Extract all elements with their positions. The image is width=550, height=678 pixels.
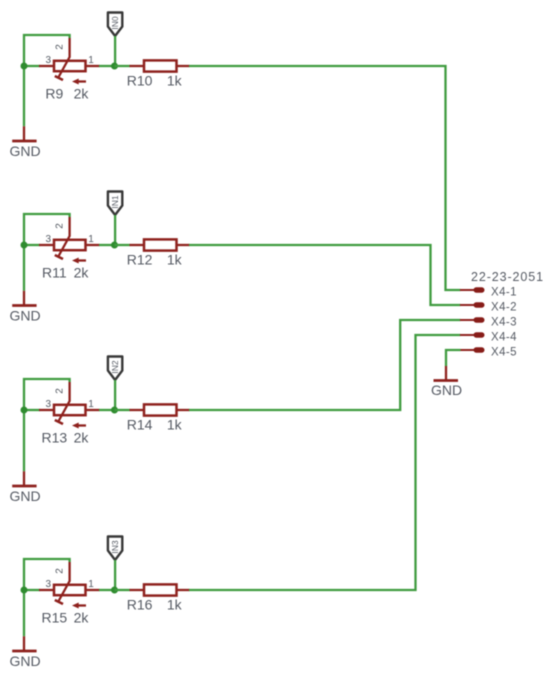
ground GND at connector <box>434 366 459 381</box>
svg-text:3: 3 <box>46 234 52 245</box>
potentiometer R13 2k <box>39 382 100 429</box>
net flag IN1 <box>108 192 122 216</box>
junction at R15 pin 3 <box>21 587 28 594</box>
junction: wiper node of R11 <box>111 242 118 249</box>
svg-text:2k: 2k <box>74 610 90 626</box>
connector pin X4-2 <box>460 302 485 307</box>
net flag IN0 <box>108 13 122 37</box>
wire: junction to R15 pin 3 <box>24 589 40 591</box>
junction at R11 pin 3 <box>21 242 28 249</box>
svg-text:3: 3 <box>46 579 52 590</box>
svg-text:2k: 2k <box>74 430 90 446</box>
wire: R15 pin 3 to GND <box>23 590 25 636</box>
junction: wiper node of R13 <box>111 407 118 414</box>
svg-text:R13: R13 <box>41 430 67 446</box>
wire: R13 pin 3 to pin 2 loop <box>24 379 70 410</box>
wire: IN1 flag to junction <box>114 215 116 245</box>
svg-text:IN3: IN3 <box>110 540 120 554</box>
svg-text:1: 1 <box>88 55 94 66</box>
svg-text:R14: R14 <box>127 416 153 432</box>
svg-text:2: 2 <box>55 44 66 50</box>
wire: junction to R12 <box>115 244 131 246</box>
svg-text:1k: 1k <box>167 251 183 267</box>
wire: R11 pin 3 to pin 2 loop <box>24 214 70 245</box>
svg-text:IN0: IN0 <box>110 16 120 30</box>
ground GND below R15 <box>12 636 36 651</box>
svg-text:1: 1 <box>88 234 94 245</box>
svg-text:3: 3 <box>46 55 52 66</box>
svg-text:X4-4: X4-4 <box>491 331 517 343</box>
potentiometer R9 2k <box>39 38 100 85</box>
wire: R15 pin 1 to junction <box>99 589 115 591</box>
junction: wiper node of R15 <box>111 587 118 594</box>
svg-text:2: 2 <box>55 388 66 394</box>
wire: R11 pin 3 to GND <box>23 245 25 291</box>
svg-text:1k: 1k <box>167 596 183 612</box>
wire: R9 pin 3 to pin 2 loop <box>24 35 70 66</box>
connector pin X4-1 <box>460 287 485 292</box>
net flag IN3 <box>108 537 122 561</box>
svg-text:2: 2 <box>55 568 66 574</box>
svg-text:22-23-2051: 22-23-2051 <box>471 270 544 284</box>
svg-text:3: 3 <box>46 399 52 410</box>
wire: R9 pin 3 to GND <box>23 66 25 126</box>
wire: R11 pin 1 to junction <box>99 244 115 246</box>
wire: junction to R9 pin 3 <box>24 65 40 67</box>
wire: junction to R10 <box>115 65 131 67</box>
wire: IN3 flag to junction <box>114 560 116 590</box>
ground GND below R13 <box>12 471 36 486</box>
potentiometer R11 2k <box>39 217 100 264</box>
svg-text:2k: 2k <box>74 265 90 281</box>
svg-text:R15: R15 <box>41 610 67 626</box>
net flag IN2 <box>108 357 122 381</box>
junction at R9 pin 3 <box>21 63 28 70</box>
wire: junction to R11 pin 3 <box>24 244 40 246</box>
wire: R9 pin 1 to junction <box>99 65 115 67</box>
svg-text:GND: GND <box>9 488 40 504</box>
wire: R13 pin 1 to junction <box>99 409 115 411</box>
wire: R15 pin 3 to pin 2 loop <box>24 559 70 590</box>
wire: R13 pin 3 to GND <box>23 410 25 471</box>
wire: R10 to X4-1 <box>189 66 461 290</box>
svg-text:1k: 1k <box>167 72 183 88</box>
wire: X4-5 to GND <box>446 350 461 366</box>
wire: R16 to X4-4 <box>189 335 461 590</box>
svg-text:1k: 1k <box>167 416 183 432</box>
resistor R10 1k <box>130 60 190 71</box>
svg-text:X4-3: X4-3 <box>491 316 517 328</box>
connector pin X4-5 <box>460 347 485 352</box>
svg-text:GND: GND <box>9 143 40 159</box>
wire: R14 to X4-3 <box>189 320 461 410</box>
ground GND below R11 <box>12 291 36 306</box>
resistor R16 1k <box>130 584 190 595</box>
svg-text:2k: 2k <box>74 86 90 102</box>
wire: IN2 flag to junction <box>114 380 116 410</box>
svg-text:2: 2 <box>55 223 66 229</box>
junction: wiper node of R9 <box>111 63 118 70</box>
wire: IN0 flag to junction <box>114 36 116 66</box>
svg-text:GND: GND <box>9 307 40 323</box>
svg-text:R9: R9 <box>45 86 63 102</box>
resistor R14 1k <box>130 404 190 415</box>
svg-text:X4-5: X4-5 <box>491 346 517 358</box>
svg-text:R12: R12 <box>127 251 153 267</box>
potentiometer R15 2k <box>39 562 100 609</box>
resistor R12 1k <box>130 239 190 250</box>
wire: R12 to X4-2 <box>189 245 461 305</box>
wire: junction to R14 <box>115 409 131 411</box>
svg-text:IN1: IN1 <box>110 195 120 209</box>
ground GND below R9 <box>12 126 36 141</box>
connector pin X4-4 <box>460 332 485 337</box>
wire: junction to R13 pin 3 <box>24 409 40 411</box>
svg-text:X4-1: X4-1 <box>491 286 517 298</box>
svg-text:X4-2: X4-2 <box>491 301 517 313</box>
svg-text:1: 1 <box>88 399 94 410</box>
svg-text:GND: GND <box>9 653 40 669</box>
connector pin X4-3 <box>460 317 485 322</box>
svg-text:R10: R10 <box>127 72 153 88</box>
svg-text:R16: R16 <box>127 596 153 612</box>
svg-text:IN2: IN2 <box>110 360 120 374</box>
svg-text:R11: R11 <box>42 265 67 281</box>
junction at R13 pin 3 <box>21 407 28 414</box>
wire: junction to R16 <box>115 589 131 591</box>
svg-text:1: 1 <box>88 579 94 590</box>
svg-text:GND: GND <box>431 382 462 398</box>
